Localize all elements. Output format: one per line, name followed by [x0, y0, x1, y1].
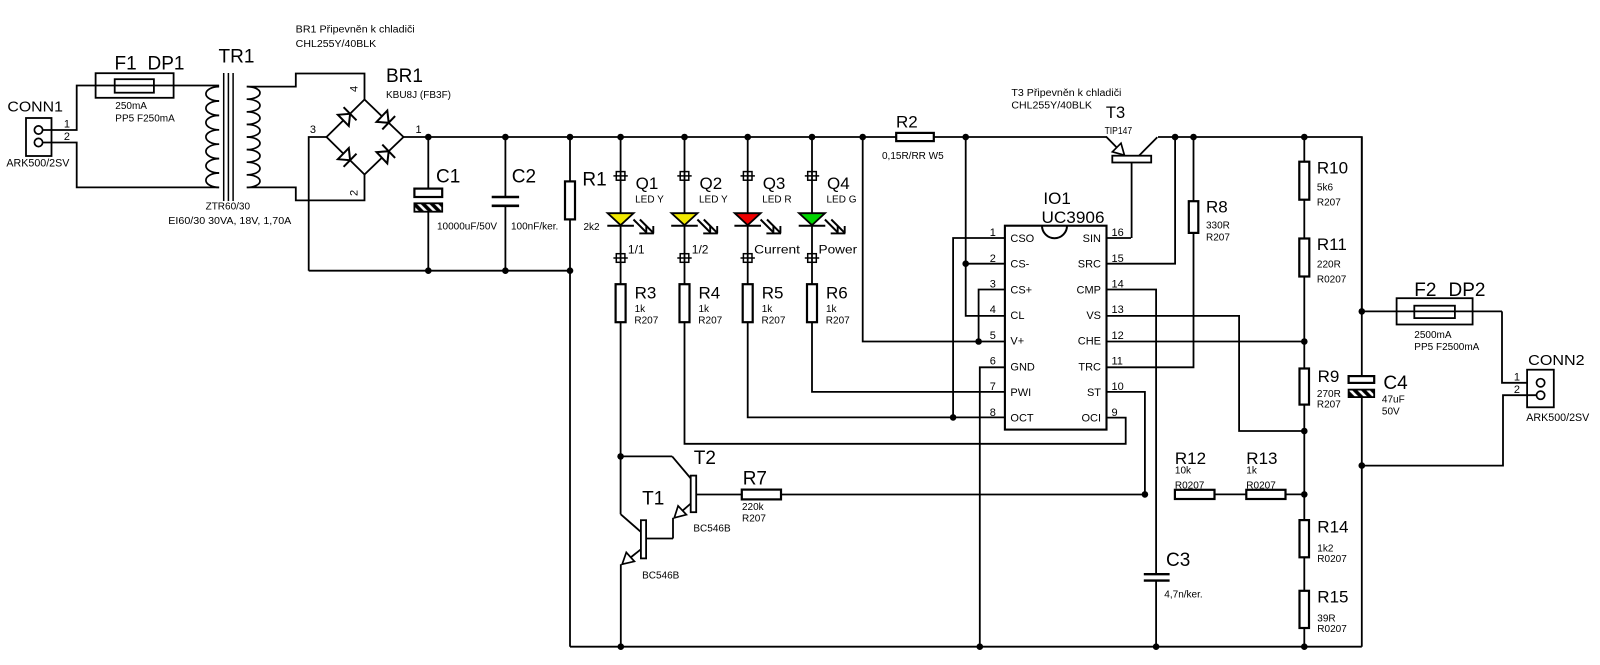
junction CS+/V+ — [975, 338, 982, 345]
svg-text:10000uF/50V: 10000uF/50V — [437, 222, 497, 233]
svg-text:1: 1 — [64, 119, 70, 131]
svg-text:CHL255Y/40BLK: CHL255Y/40BLK — [296, 39, 377, 50]
svg-text:47uF: 47uF — [1382, 395, 1405, 406]
resistor R8 — [1107, 137, 1231, 367]
wire CHE node to R9 — [1303, 342, 1305, 369]
svg-text:ARK500/2SV: ARK500/2SV — [1526, 412, 1590, 424]
svg-text:1k: 1k — [826, 304, 838, 315]
svg-text:R0207: R0207 — [1317, 274, 1347, 285]
capacitor C3 — [1144, 550, 1203, 647]
wire top rail (BR1 pin1 to T3) — [404, 136, 1108, 138]
svg-text:OCT: OCT — [1010, 413, 1034, 425]
junction GND pin ground — [977, 643, 984, 650]
svg-text:1k: 1k — [635, 304, 647, 315]
svg-text:220R: 220R — [1317, 259, 1341, 270]
wire SRC (pin15) to rail — [1107, 137, 1176, 264]
CONN2 pin 2 label — [1514, 384, 1520, 396]
resistor R6 — [807, 283, 850, 326]
svg-text:CMP: CMP — [1077, 284, 1101, 296]
connector CONN1 — [6, 99, 70, 170]
svg-text:SIN: SIN — [1083, 233, 1101, 245]
junction CS- — [962, 260, 969, 267]
transistor T2 — [621, 448, 742, 539]
resistor R14 — [1300, 494, 1349, 565]
wire CHE (pin12) — [1107, 341, 1305, 343]
svg-text:0,15R/RR W5: 0,15R/RR W5 — [882, 151, 944, 162]
wire R15 to ground — [1303, 628, 1305, 647]
svg-text:Q4: Q4 — [827, 174, 850, 193]
svg-text:BR1: BR1 — [386, 66, 423, 87]
wire top rail (T3 to right corner) — [1158, 137, 1362, 311]
wire R3 to T1/T2 collector node — [620, 322, 622, 456]
svg-text:R3: R3 — [635, 283, 657, 302]
wire CONN2 pin2 return — [1362, 395, 1537, 465]
label 1/2 — [692, 243, 709, 257]
resistor R7 — [742, 468, 781, 524]
junction CS- tap — [962, 134, 969, 141]
wire Q2 column — [684, 137, 686, 284]
svg-text:BC546B: BC546B — [693, 523, 731, 534]
svg-text:1k: 1k — [762, 304, 774, 315]
wire TR1 secondary bottom to BR1 pin2 — [247, 175, 365, 201]
svg-text:11: 11 — [1112, 356, 1123, 368]
wire SIN (pin16) to T3 base — [1107, 237, 1132, 239]
wire TR1 secondary top to BR1 pin4 — [247, 74, 365, 100]
junction R15 ground — [1301, 643, 1308, 650]
svg-text:R207: R207 — [634, 316, 658, 327]
wire BR1 pin3 down — [309, 137, 327, 271]
CONN1 pin 1 label — [64, 119, 70, 131]
junction F2 tap — [1359, 308, 1366, 315]
svg-text:R4: R4 — [699, 283, 721, 302]
note T3 heatsink — [1011, 88, 1121, 112]
wire R1 bottom to ground rail — [569, 271, 571, 647]
svg-text:TRC: TRC — [1078, 361, 1101, 373]
svg-text:4: 4 — [990, 304, 996, 316]
resistor R10 — [1299, 137, 1348, 209]
wire CS+ to V+ — [979, 290, 1005, 342]
svg-text:1/2: 1/2 — [692, 243, 709, 257]
svg-text:R10: R10 — [1317, 158, 1348, 177]
transformer TR1 — [168, 47, 291, 228]
svg-text:Power: Power — [819, 243, 858, 257]
resistor R3 — [616, 283, 659, 326]
junction C3 ground — [1153, 643, 1160, 650]
svg-text:4,7n/ker.: 4,7n/ker. — [1164, 589, 1202, 600]
svg-text:R5: R5 — [762, 283, 784, 302]
svg-text:R6: R6 — [826, 283, 848, 302]
svg-text:9: 9 — [1112, 407, 1118, 419]
svg-text:KBU8J (FB3F): KBU8J (FB3F) — [386, 90, 451, 101]
LED Q4 — [799, 174, 857, 233]
svg-text:Q3: Q3 — [763, 174, 786, 193]
wire VS (pin13) — [1107, 316, 1305, 431]
resistor R11 — [1299, 235, 1347, 285]
svg-text:100nF/ker.: 100nF/ker. — [511, 222, 558, 233]
test pad above Q2 — [677, 172, 691, 181]
junction VS node — [1301, 428, 1308, 435]
svg-text:V+: V+ — [1010, 336, 1024, 348]
svg-text:GND: GND — [1010, 361, 1035, 373]
svg-text:R7: R7 — [743, 468, 767, 489]
wire CMP (pin14) to C3 — [1107, 290, 1157, 574]
svg-text:F2: F2 — [1414, 280, 1436, 301]
svg-text:CL: CL — [1010, 310, 1024, 322]
svg-text:DP2: DP2 — [1449, 280, 1486, 301]
svg-text:1: 1 — [990, 227, 996, 239]
svg-text:5: 5 — [990, 330, 996, 342]
junction ST node — [1142, 491, 1149, 498]
junction R1 top — [567, 134, 574, 141]
svg-text:R207: R207 — [762, 316, 786, 327]
svg-text:Q1: Q1 — [636, 174, 659, 193]
fuse F1 DP1 — [96, 53, 185, 124]
resistor R5 — [743, 283, 786, 326]
svg-text:DP1: DP1 — [148, 53, 185, 74]
wire CS- stub — [966, 263, 1005, 265]
CONN1 pin 2 label — [64, 131, 70, 143]
junction Q4 top — [809, 134, 816, 141]
test pad below Q1 — [613, 254, 627, 263]
svg-text:1k: 1k — [1246, 465, 1258, 476]
junction C1 top — [425, 134, 432, 141]
svg-text:PP5 F250mA: PP5 F250mA — [115, 113, 175, 124]
svg-text:2: 2 — [1514, 384, 1520, 396]
test pad above Q4 — [805, 172, 819, 181]
svg-text:T3: T3 — [1106, 104, 1125, 122]
svg-text:R207: R207 — [698, 316, 722, 327]
svg-text:R11: R11 — [1317, 235, 1347, 254]
note BR1 heatsink — [296, 24, 415, 50]
wire V+ tap to IO1 V+ (pin5) — [863, 137, 1005, 342]
svg-text:1: 1 — [1514, 371, 1520, 383]
svg-text:Current: Current — [754, 243, 801, 257]
svg-text:UC3906: UC3906 — [1042, 208, 1105, 227]
test pad below Q4 — [805, 254, 819, 263]
svg-text:4: 4 — [349, 86, 361, 92]
transistor T3 — [1105, 104, 1158, 238]
junction Q3 top — [744, 134, 751, 141]
svg-text:R2: R2 — [896, 113, 918, 132]
svg-text:7: 7 — [990, 381, 996, 393]
svg-text:R14: R14 — [1317, 517, 1348, 536]
wire CSO to OCT — [953, 238, 1005, 417]
wire ST (pin10) — [1107, 392, 1145, 495]
svg-text:39R: 39R — [1317, 614, 1335, 625]
wire CONN1-2 to TR1 primary bottom — [43, 143, 220, 188]
svg-text:2k2: 2k2 — [584, 222, 601, 233]
junction V+ tap — [859, 134, 866, 141]
wire ground rail — [570, 646, 1362, 648]
svg-text:8: 8 — [990, 407, 996, 419]
resistor R12 — [1175, 449, 1215, 499]
test pad above Q1 — [613, 172, 627, 181]
svg-text:CONN1: CONN1 — [7, 99, 63, 116]
svg-text:13: 13 — [1112, 304, 1124, 316]
wire Q4 column — [811, 137, 813, 284]
junction divider node — [1301, 491, 1308, 498]
svg-text:BR1 Připevněn k chladiči: BR1 Připevněn k chladiči — [296, 24, 415, 35]
svg-text:2500mA: 2500mA — [1414, 330, 1452, 341]
junction T1/T2 collector node — [617, 453, 624, 460]
svg-text:R207: R207 — [826, 316, 850, 327]
BR1 pin 4 label — [349, 86, 361, 92]
svg-text:LED G: LED G — [827, 194, 857, 205]
junction R10 rail — [1301, 134, 1308, 141]
svg-text:R0207: R0207 — [1317, 624, 1347, 635]
wire R12-R13 — [1215, 493, 1247, 495]
svg-text:2: 2 — [349, 190, 361, 196]
junction Q2 top — [681, 134, 688, 141]
svg-text:LED Y: LED Y — [699, 194, 728, 205]
svg-text:1k: 1k — [699, 304, 711, 315]
label 1/1 — [628, 243, 645, 257]
resistor R9 — [1300, 367, 1342, 411]
svg-text:R8: R8 — [1206, 197, 1228, 216]
svg-text:F1: F1 — [115, 53, 137, 74]
svg-text:T1: T1 — [642, 489, 664, 510]
svg-text:CSO: CSO — [1010, 233, 1034, 245]
svg-text:2: 2 — [990, 253, 996, 265]
wire R9 to VS node to divider node — [1303, 405, 1305, 495]
wire R14-R15 — [1303, 557, 1305, 591]
BR1 pin 1 label — [416, 124, 422, 136]
capacitor C1 — [414, 137, 497, 271]
capacitor C4 — [1349, 373, 1409, 647]
junction Q1 top — [617, 134, 624, 141]
svg-text:R0207: R0207 — [1175, 480, 1205, 491]
svg-text:R1: R1 — [582, 170, 606, 191]
svg-text:C2: C2 — [512, 166, 536, 187]
wire R4 to IO1 OCI (pin9) — [685, 322, 1126, 444]
resistor R2 — [882, 113, 944, 162]
junction T1 emitter ground — [618, 643, 625, 650]
LED Q1 — [607, 174, 664, 233]
svg-text:ZTR60/30: ZTR60/30 — [206, 202, 251, 213]
svg-text:1k2: 1k2 — [1317, 544, 1334, 555]
svg-text:250mA: 250mA — [115, 101, 147, 112]
svg-text:5k6: 5k6 — [1317, 183, 1334, 194]
svg-text:Q2: Q2 — [700, 174, 723, 193]
op-amp U1 / charge controller IO1 UC3906 — [990, 189, 1124, 430]
resistor R13 — [1246, 449, 1285, 499]
svg-text:VS: VS — [1086, 310, 1101, 322]
svg-text:PP5 F2500mA: PP5 F2500mA — [1414, 342, 1479, 353]
wire R6 to IO1 PWI (pin7) — [812, 322, 1005, 392]
resistor R4 — [680, 283, 723, 326]
label Power — [819, 243, 858, 257]
test pad above Q3 — [741, 172, 755, 181]
svg-text:ST: ST — [1087, 387, 1101, 399]
wire Q1 column — [620, 137, 622, 284]
wire right column top — [1361, 137, 1363, 376]
svg-text:1/1: 1/1 — [628, 243, 645, 257]
svg-text:LED R: LED R — [762, 194, 791, 205]
wire negative rail under C1 C2 — [309, 270, 570, 272]
svg-text:R0207: R0207 — [1246, 480, 1276, 491]
svg-text:10k: 10k — [1175, 465, 1192, 476]
transistor T1 — [621, 456, 680, 646]
wire R10-R11 — [1303, 200, 1305, 239]
svg-text:CHE: CHE — [1078, 336, 1101, 348]
junction CONN2 return — [1359, 462, 1366, 469]
wire R7 to ST node — [781, 494, 1145, 496]
svg-text:CHL255Y/40BLK: CHL255Y/40BLK — [1011, 101, 1092, 112]
svg-text:PWI: PWI — [1010, 387, 1031, 399]
svg-text:C3: C3 — [1166, 550, 1190, 571]
fuse F2 DP2 — [1362, 280, 1502, 353]
resistor R1 — [565, 137, 607, 271]
svg-text:TR1: TR1 — [219, 47, 255, 68]
svg-text:T2: T2 — [694, 448, 716, 469]
svg-text:CONN2: CONN2 — [1528, 352, 1584, 369]
svg-text:T3 Připevněn k chladiči: T3 Připevněn k chladiči — [1011, 88, 1121, 99]
svg-text:R207: R207 — [742, 513, 766, 524]
svg-text:SRC: SRC — [1078, 259, 1101, 271]
test pad below Q3 — [741, 254, 755, 263]
BR1 pin 3 label — [310, 124, 316, 136]
svg-text:TIP147: TIP147 — [1105, 126, 1133, 137]
svg-text:R0207: R0207 — [1317, 554, 1347, 565]
wire R5 to IO1 OCT (pin8) — [748, 322, 1005, 417]
wire Q3 column — [747, 137, 749, 284]
svg-text:R207: R207 — [1317, 198, 1341, 209]
svg-text:1: 1 — [416, 124, 422, 136]
wire R11 to CHE node — [1303, 277, 1305, 342]
connector CONN2 — [1526, 352, 1590, 424]
svg-text:R207: R207 — [1317, 399, 1341, 410]
wire R13 to divider — [1286, 493, 1305, 495]
junction C2 top — [502, 134, 509, 141]
BR1 pin 2 label — [349, 190, 361, 196]
wire CONN1-1 to F1 — [43, 86, 220, 131]
CONN2 pin 1 label — [1514, 371, 1520, 383]
wire GND pin to ground rail — [980, 367, 1005, 646]
svg-text:220k: 220k — [742, 502, 765, 513]
svg-text:C1: C1 — [436, 166, 460, 187]
junction C1 bottom — [425, 267, 432, 274]
svg-text:OCI: OCI — [1081, 413, 1101, 425]
svg-text:12: 12 — [1112, 330, 1124, 342]
bridge rectifier BR1 — [327, 66, 452, 175]
wire CS-/CL tap — [966, 137, 1005, 316]
svg-text:CS+: CS+ — [1010, 284, 1032, 296]
svg-text:3: 3 — [990, 279, 996, 291]
svg-text:3: 3 — [310, 124, 316, 136]
svg-text:EI60/30 30VA, 18V, 1,70A: EI60/30 30VA, 18V, 1,70A — [168, 216, 291, 227]
test pad below Q2 — [677, 254, 691, 263]
junction C2 bottom — [502, 267, 509, 274]
svg-text:ARK500/2SV: ARK500/2SV — [6, 157, 70, 169]
svg-text:BC546B: BC546B — [642, 570, 680, 581]
svg-text:330R: 330R — [1206, 220, 1230, 231]
svg-text:2: 2 — [64, 131, 70, 143]
svg-text:IO1: IO1 — [1043, 189, 1070, 208]
svg-text:C4: C4 — [1383, 373, 1408, 394]
svg-text:50V: 50V — [1382, 407, 1400, 418]
svg-text:R15: R15 — [1317, 588, 1348, 607]
junction OCT node — [950, 414, 957, 421]
LED Q3 — [734, 174, 791, 233]
label Current — [754, 243, 801, 257]
svg-text:LED Y: LED Y — [635, 194, 664, 205]
junction SRC rail — [1172, 134, 1179, 141]
svg-text:R9: R9 — [1318, 367, 1340, 386]
wire F2 to CONN2 pin1 — [1502, 311, 1536, 382]
junction R8 rail — [1190, 134, 1197, 141]
junction CHE node — [1301, 338, 1308, 345]
capacitor C2 — [492, 137, 559, 271]
junction R1 bottom rail — [567, 267, 574, 274]
svg-text:6: 6 — [990, 356, 996, 368]
svg-text:R207: R207 — [1206, 233, 1230, 244]
LED Q2 — [671, 174, 728, 233]
resistor R15 — [1300, 588, 1349, 636]
svg-text:CS-: CS- — [1010, 259, 1029, 271]
